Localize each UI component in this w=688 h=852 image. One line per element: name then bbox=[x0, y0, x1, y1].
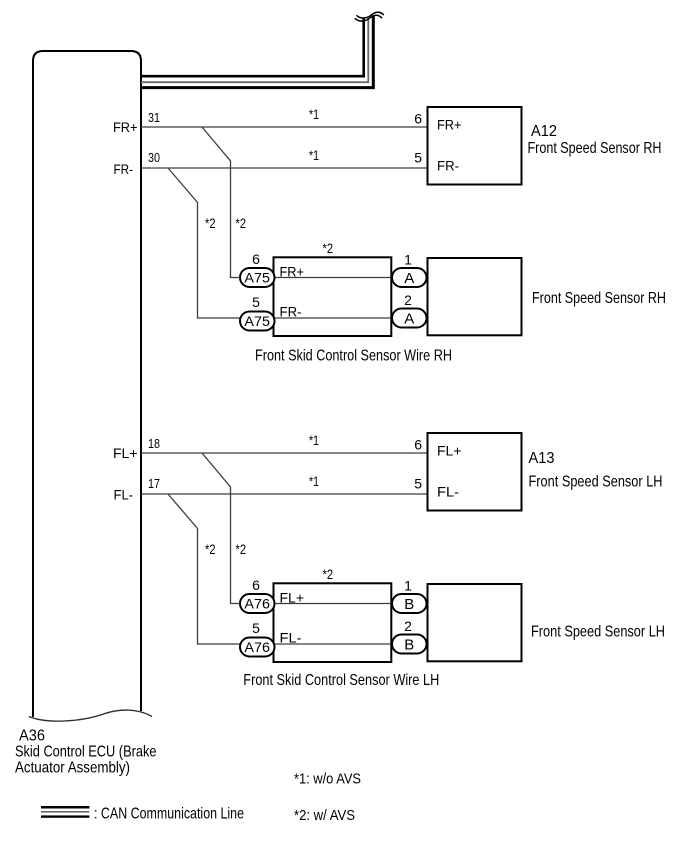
svg-text:5: 5 bbox=[414, 150, 422, 166]
svg-text:B: B bbox=[404, 596, 414, 613]
wire row FL- inside middle box LH bbox=[275, 643, 390, 645]
label Front Speed Sensor RH (lower) bbox=[532, 290, 666, 307]
wire row FR+ inside middle box RH bbox=[275, 277, 390, 279]
svg-text:A75: A75 bbox=[244, 270, 270, 286]
svg-text:A75: A75 bbox=[244, 313, 270, 329]
legend text CAN Communication Line bbox=[94, 806, 244, 823]
pin number 17 bbox=[148, 476, 160, 491]
svg-text:1: 1 bbox=[404, 252, 412, 268]
pin number 6 above A75 bbox=[252, 251, 260, 267]
svg-text:Front Speed Sensor LH: Front Speed Sensor LH bbox=[529, 473, 663, 490]
wire row FL+ inside middle box LH bbox=[275, 603, 390, 605]
wire FL- (pin17 to A13 pin5) bbox=[141, 493, 428, 495]
svg-text:*2: w/ AVS: *2: w/ AVS bbox=[294, 807, 355, 824]
legend CAN symbol bar top bbox=[41, 806, 89, 809]
CAN bus line 3 (outer thick) bbox=[141, 16, 373, 88]
svg-text:*2: *2 bbox=[323, 240, 334, 256]
svg-text:6: 6 bbox=[414, 111, 422, 127]
connector B oval pin2 bbox=[392, 635, 427, 654]
svg-text:A76: A76 bbox=[244, 596, 270, 612]
note *1 on FL+ wire bbox=[309, 432, 319, 448]
svg-text:FR-: FR- bbox=[280, 304, 302, 320]
note *2 on FR- branch bbox=[205, 215, 216, 231]
label FL+ in middle box LH bbox=[280, 590, 305, 606]
pin number 2 above A oval bbox=[404, 292, 412, 308]
svg-text:5: 5 bbox=[252, 294, 260, 310]
pin number 1 above B oval bbox=[404, 578, 412, 594]
label A13 bbox=[529, 450, 555, 467]
connector B oval pin1 bbox=[392, 594, 427, 613]
svg-text:Front Speed Sensor RH: Front Speed Sensor RH bbox=[532, 290, 666, 307]
svg-text:A: A bbox=[404, 311, 414, 328]
A12 pin label FR- bbox=[437, 158, 459, 174]
note *2 above middle box RH bbox=[323, 240, 334, 256]
svg-text:FR+: FR+ bbox=[113, 119, 138, 135]
note *1 on FR+ wire bbox=[309, 106, 319, 122]
label FL- in middle box LH bbox=[280, 630, 302, 646]
svg-text:*2: *2 bbox=[205, 541, 216, 557]
svg-text:5: 5 bbox=[414, 476, 422, 492]
pin number 5 above A76 bbox=[252, 620, 260, 636]
svg-text:A76: A76 bbox=[244, 639, 270, 655]
svg-text:FR+: FR+ bbox=[437, 117, 462, 133]
label FR+ in middle box RH bbox=[280, 264, 305, 280]
svg-text:FR-: FR- bbox=[437, 158, 459, 174]
svg-text:Front Skid Control Sensor Wire: Front Skid Control Sensor Wire RH bbox=[255, 348, 452, 365]
CAN bus break squiggle at top bbox=[355, 12, 384, 21]
svg-text:B: B bbox=[404, 637, 414, 654]
note *1: w/o AVS bbox=[294, 770, 361, 787]
svg-text:FL-: FL- bbox=[280, 630, 302, 646]
wire branch FL+ to A76 pin6 (w/ AVS) bbox=[202, 453, 240, 604]
svg-text:*2: *2 bbox=[205, 215, 216, 231]
svg-text:FL-: FL- bbox=[437, 484, 459, 500]
note *1 on FR- wire bbox=[309, 147, 319, 163]
svg-text:5: 5 bbox=[252, 620, 260, 636]
ECU A36 bottom wavy break line bbox=[29, 710, 152, 721]
pin number 30 bbox=[148, 150, 160, 165]
A12 pin label FR+ bbox=[437, 117, 462, 133]
svg-text:Front Skid Control Sensor Wire: Front Skid Control Sensor Wire LH bbox=[243, 672, 439, 689]
svg-text:FR-: FR- bbox=[114, 161, 134, 177]
note *1 on FL- wire bbox=[309, 473, 319, 489]
note *2 on FL- branch bbox=[205, 541, 216, 557]
svg-text:*2: *2 bbox=[236, 215, 247, 231]
label FR+ at ECU bbox=[113, 119, 138, 135]
svg-text:*1: *1 bbox=[309, 473, 319, 489]
svg-text:Front Speed Sensor LH: Front Speed Sensor LH bbox=[531, 624, 665, 641]
front speed sensor RH box (lower) bbox=[428, 258, 522, 335]
wire branch FL- to A76 pin5 (w/ AVS) bbox=[168, 494, 240, 644]
svg-text:*1: *1 bbox=[309, 432, 319, 448]
svg-text:*1: *1 bbox=[309, 147, 319, 163]
svg-text:31: 31 bbox=[148, 110, 160, 125]
skid control sensor wire RH box bbox=[274, 257, 392, 336]
ECU label line: Actuator Assembly) bbox=[15, 759, 130, 776]
svg-text:2: 2 bbox=[404, 618, 412, 634]
svg-text:30: 30 bbox=[148, 150, 160, 165]
wire row FR- inside middle box RH bbox=[275, 317, 390, 319]
label FL- at ECU bbox=[114, 487, 134, 503]
svg-text:*2: *2 bbox=[236, 541, 247, 557]
svg-text:A: A bbox=[404, 270, 414, 287]
svg-text:Skid Control ECU (Brake: Skid Control ECU (Brake bbox=[15, 744, 157, 761]
svg-text:FL-: FL- bbox=[114, 487, 134, 503]
A12 pin 5 number bbox=[414, 150, 422, 166]
svg-text:Front Speed Sensor RH: Front Speed Sensor RH bbox=[528, 140, 662, 157]
connector A75 pin6 oval bbox=[240, 268, 275, 287]
A13 pin label FL- bbox=[437, 484, 459, 500]
wire FR+ (pin31 to A12 pin6) bbox=[141, 126, 428, 128]
connector A76 pin5 oval bbox=[240, 638, 275, 657]
pin number 6 above A76 bbox=[252, 577, 260, 593]
label A12 bbox=[531, 123, 557, 140]
legend CAN symbol bar middle bbox=[41, 811, 89, 813]
note *2 above middle box LH bbox=[323, 566, 334, 582]
svg-text:: CAN Communication Line: : CAN Communication Line bbox=[94, 806, 244, 823]
pin number 2 above B oval bbox=[404, 618, 412, 634]
svg-text:A36: A36 bbox=[19, 727, 45, 744]
wire branch FR+ to A75 pin6 (w/ AVS) bbox=[202, 127, 240, 278]
svg-text:FL+: FL+ bbox=[280, 590, 305, 606]
A13 pin 6 number bbox=[414, 437, 422, 453]
svg-text:FR+: FR+ bbox=[280, 264, 305, 280]
svg-text:6: 6 bbox=[252, 577, 260, 593]
ECU A36 body outline bbox=[33, 51, 141, 717]
legend CAN symbol bar bottom bbox=[41, 815, 89, 817]
ECU label line: Skid Control ECU (Brake bbox=[15, 744, 157, 761]
note *2 on FL+ branch bbox=[236, 541, 247, 557]
speed sensor box A12 bbox=[428, 107, 522, 185]
pin number 31 bbox=[148, 110, 160, 125]
A13 pin 5 number bbox=[414, 476, 422, 492]
svg-text:18: 18 bbox=[148, 436, 160, 451]
caption Front Skid Control Sensor Wire LH bbox=[243, 672, 439, 689]
svg-text:FL+: FL+ bbox=[437, 443, 462, 459]
pin number 1 above A oval bbox=[404, 252, 412, 268]
label Front Speed Sensor LH (lower) bbox=[531, 624, 665, 641]
wire branch FR- to A75 pin5 (w/ AVS) bbox=[168, 168, 240, 318]
label FL+ at ECU bbox=[113, 445, 138, 461]
svg-text:*2: *2 bbox=[323, 566, 334, 582]
caption Front Skid Control Sensor Wire RH bbox=[255, 348, 452, 365]
svg-text:*1: w/o AVS: *1: w/o AVS bbox=[294, 770, 361, 787]
CAN bus horizontal+vertical line 1 (inner thick) bbox=[141, 19, 364, 77]
connector A oval pin2 bbox=[392, 309, 427, 328]
svg-text:17: 17 bbox=[148, 476, 160, 491]
A12 pin 6 number bbox=[414, 111, 422, 127]
label Front Speed Sensor RH (A12) bbox=[528, 140, 662, 157]
connector A75 pin5 oval bbox=[240, 312, 275, 331]
wire FR- (pin30 to A12 pin5) bbox=[141, 167, 428, 169]
speed sensor box A13 bbox=[428, 433, 522, 511]
svg-text:Actuator Assembly): Actuator Assembly) bbox=[15, 759, 130, 776]
svg-text:A12: A12 bbox=[531, 123, 557, 140]
label FR- in middle box RH bbox=[280, 304, 302, 320]
svg-text:2: 2 bbox=[404, 292, 412, 308]
front speed sensor LH box (lower) bbox=[428, 584, 522, 661]
svg-text:FL+: FL+ bbox=[113, 445, 138, 461]
label Front Speed Sensor LH (A13) bbox=[529, 473, 663, 490]
note *2 on FR+ branch bbox=[236, 215, 247, 231]
svg-text:A13: A13 bbox=[529, 450, 555, 467]
wire FL+ (pin18 to A13 pin6) bbox=[141, 452, 428, 454]
svg-text:*1: *1 bbox=[309, 106, 319, 122]
pin number 5 above A75 bbox=[252, 294, 260, 310]
skid control sensor wire LH box bbox=[274, 583, 392, 662]
note *2: w/ AVS bbox=[294, 807, 355, 824]
connector A oval pin1 bbox=[392, 268, 427, 287]
svg-text:6: 6 bbox=[252, 251, 260, 267]
label FR- at ECU bbox=[114, 161, 134, 177]
svg-text:1: 1 bbox=[404, 578, 412, 594]
pin number 18 bbox=[148, 436, 160, 451]
svg-text:6: 6 bbox=[414, 437, 422, 453]
A13 pin label FL+ bbox=[437, 443, 462, 459]
connector A76 pin6 oval bbox=[240, 594, 275, 613]
CAN bus line 2 (middle thin gray) bbox=[141, 18, 368, 82]
ECU label A36 bbox=[19, 727, 45, 744]
